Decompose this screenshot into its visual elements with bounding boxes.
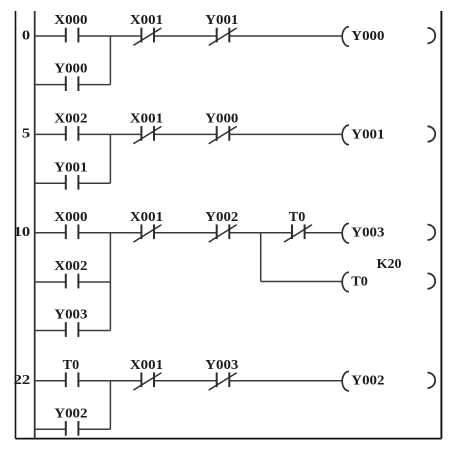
contact X000 (col1, NO) [54,12,87,42]
contact T0 (col4, NC) [284,209,312,242]
contact X001 (col2, NC) [130,111,163,144]
contact X001 (col2, NC) [130,209,163,242]
wire rung 0 main [35,35,342,37]
output coil Y000 [342,27,435,47]
contact Y001 (branch, NO) [54,159,87,189]
output coil Y003 [342,223,435,243]
svg-text:Y002: Y002 [54,405,87,420]
wire timer branch [261,281,342,283]
svg-text:10: 10 [14,224,31,239]
contact X001 (col2, NC) [130,12,163,45]
wire rung 10 branch Y003 [35,330,111,332]
contact Y003 (col3, NC) [205,357,238,390]
step number 10 [14,224,31,239]
svg-text:X000: X000 [54,209,87,224]
svg-text:X000: X000 [54,12,87,27]
svg-text:X002: X002 [54,111,87,126]
bottom frame border [16,438,442,440]
output coil Y001 [342,125,435,145]
step number 5 [22,126,30,141]
svg-text:Y003: Y003 [205,357,238,372]
svg-text:T0: T0 [351,274,368,289]
svg-text:Y000: Y000 [54,61,87,76]
svg-text:Y001: Y001 [54,159,87,174]
contact Y000 (branch, NO) [54,61,87,91]
svg-text:X001: X001 [130,357,163,372]
contact Y002 (branch, NO) [54,405,87,435]
svg-text:Y001: Y001 [351,126,384,141]
svg-text:Y000: Y000 [351,28,384,43]
step number 22 [14,372,31,387]
contact Y002 (col3, NC) [205,209,238,242]
contact X001 (col2, NC) [130,357,163,390]
svg-text:X001: X001 [130,111,163,126]
step number 0 [22,27,30,42]
junction vertical to timer branch [260,233,262,282]
svg-text:Y002: Y002 [351,373,384,388]
junction vertical rung 0 [109,36,111,85]
junction vertical rung 5 [109,134,111,183]
timer preset K20 [377,256,402,271]
right frame border / right power rail [440,11,442,439]
output coil Y002 [342,371,435,391]
svg-text:K20: K20 [377,256,402,271]
svg-text:5: 5 [22,126,30,141]
junction vertical rung 10 [109,233,111,331]
left power rail [34,11,36,439]
timer coil T0 [342,272,435,292]
svg-text:Y000: Y000 [205,111,238,126]
svg-text:X001: X001 [130,12,163,27]
wire rung 10 main [35,232,342,234]
contact Y001 (col3, NC) [205,12,238,45]
wire rung 22 main [35,380,342,382]
contact X002 (col1, NO) [54,111,87,141]
wire rung 10 branch X002 [35,281,111,283]
svg-text:22: 22 [14,372,31,387]
svg-text:Y003: Y003 [351,225,384,240]
contact Y000 (col3, NC) [205,111,238,144]
svg-text:T0: T0 [63,357,80,372]
svg-text:X002: X002 [54,258,87,273]
svg-text:Y001: Y001 [205,12,238,27]
wire rung 5 main [35,133,342,135]
wire rung 0 parallel branch [35,84,111,86]
contact X002 (branch, NO) [54,258,87,288]
contact X000 (col1, NO) [54,209,87,239]
junction vertical rung 22 [109,381,111,430]
contact T0 (col1, NO) [63,357,80,387]
svg-text:T0: T0 [289,209,306,224]
left frame border [15,11,17,439]
svg-text:0: 0 [22,27,30,42]
contact Y003 (branch, NO) [54,307,87,337]
wire rung 5 parallel branch [35,182,111,184]
wire rung 22 parallel branch [35,428,111,430]
svg-text:Y003: Y003 [54,307,87,322]
svg-text:X001: X001 [130,209,163,224]
svg-text:Y002: Y002 [205,209,238,224]
